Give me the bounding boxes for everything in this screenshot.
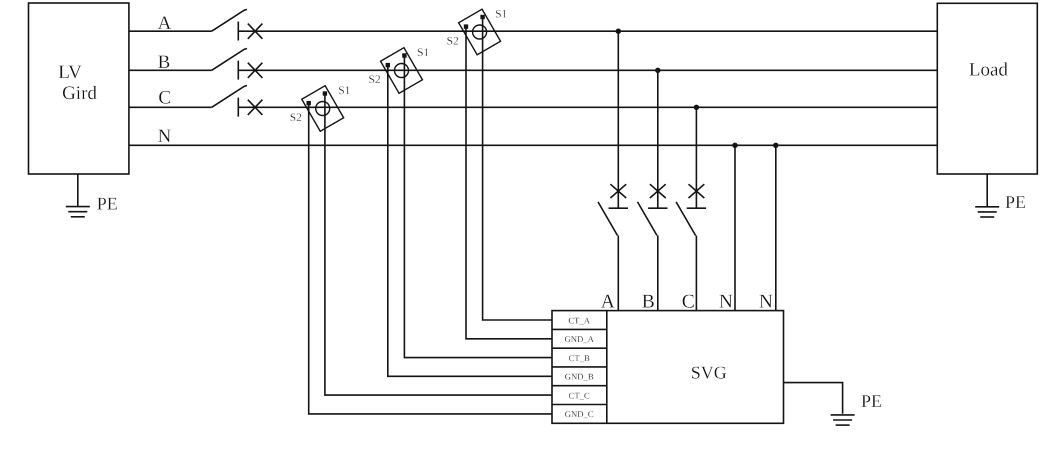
svg-text:S1: S1 xyxy=(495,9,507,21)
svg-text:Load: Load xyxy=(969,59,1009,80)
svg-text:GND_C: GND_C xyxy=(565,409,594,419)
svg-text:CT_B: CT_B xyxy=(569,353,590,363)
svg-text:S2: S2 xyxy=(447,36,459,48)
svg-text:SVG: SVG xyxy=(691,363,727,383)
svg-text:N: N xyxy=(158,126,172,147)
svg-text:N: N xyxy=(759,292,773,313)
svg-text:N: N xyxy=(719,292,733,313)
svg-text:Gird: Gird xyxy=(62,83,97,104)
svg-text:B: B xyxy=(642,292,655,313)
svg-text:PE: PE xyxy=(861,391,882,411)
svg-text:PE: PE xyxy=(1005,192,1026,212)
svg-text:PE: PE xyxy=(97,193,118,213)
svg-text:GND_B: GND_B xyxy=(565,372,594,382)
svg-text:C: C xyxy=(682,292,695,313)
svg-text:S2: S2 xyxy=(290,112,302,124)
svg-text:GND_A: GND_A xyxy=(564,334,594,344)
svg-text:CT_A: CT_A xyxy=(568,315,590,325)
svg-text:C: C xyxy=(158,88,171,109)
svg-text:A: A xyxy=(158,13,172,34)
svg-text:A: A xyxy=(601,292,615,313)
svg-text:S1: S1 xyxy=(338,85,350,97)
svg-text:S1: S1 xyxy=(417,47,429,59)
svg-text:LV: LV xyxy=(58,62,82,83)
svg-text:B: B xyxy=(158,52,171,73)
svg-text:S2: S2 xyxy=(369,74,381,86)
svg-text:CT_C: CT_C xyxy=(569,390,590,400)
